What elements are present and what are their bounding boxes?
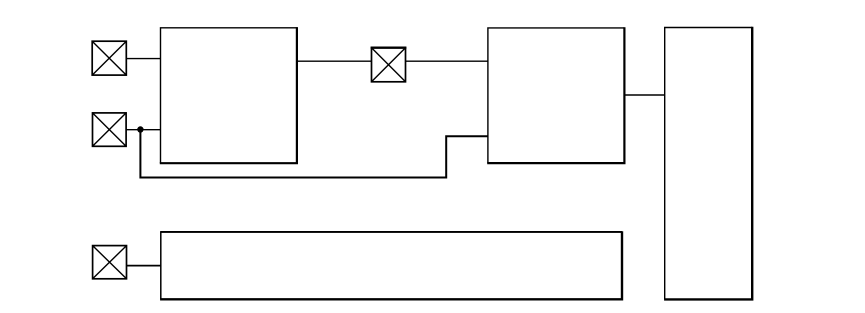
wire P2 to U1	[126, 129, 161, 131]
wire P4 to U2	[406, 60, 488, 62]
block U3 (tall block, right)	[664, 27, 752, 300]
wire node to U2 (stepped feedback wire)	[140, 130, 488, 178]
pad P4 (crossed-square pad, middle)	[371, 48, 407, 82]
wire U1 to P4	[297, 60, 372, 62]
pad P2 (crossed-square I/O pad, mid left)	[93, 113, 127, 146]
node junction dot	[137, 126, 143, 132]
wire P1 to U1	[126, 58, 161, 60]
block U1 (large square block)	[160, 27, 297, 163]
wire U2 to U3	[624, 94, 664, 96]
block U4 (long bottom block)	[160, 231, 622, 299]
block U2 (second square block)	[487, 27, 624, 163]
wire P3 to U4	[127, 265, 161, 267]
pad P3 (crossed-square I/O pad, bottom left)	[93, 246, 127, 279]
pad P1 (crossed-square I/O pad, top left)	[92, 41, 126, 75]
